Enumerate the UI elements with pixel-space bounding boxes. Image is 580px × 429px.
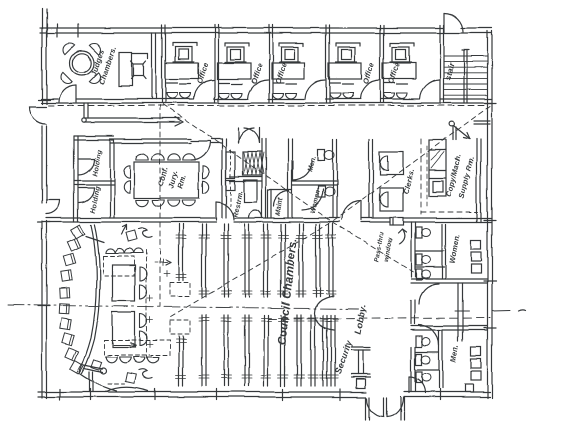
- restroom left wall: [221, 139, 223, 218]
- wall exterior bottom: [38, 391, 366, 393]
- office 3 desk: [272, 63, 305, 79]
- mid restrooms partition: [292, 180, 337, 182]
- small dashed arrow well: [155, 261, 171, 263]
- judges table chairs: [61, 41, 75, 55]
- counsel table 1: [112, 265, 135, 301]
- clerks chair 2: [380, 192, 388, 207]
- podium rear: [126, 373, 137, 384]
- restroom right wall: [261, 139, 263, 218]
- gallery benches lower: [178, 336, 180, 386]
- restroom shelf band: [230, 176, 262, 178]
- office 1 computer: [175, 47, 192, 62]
- dashed centerline vertical: [159, 105, 161, 306]
- judges chambers door: [59, 85, 76, 102]
- men stall dividers: [415, 351, 439, 353]
- women stall dividers: [415, 250, 444, 252]
- holding partition: [74, 180, 114, 182]
- plant corner: [91, 360, 101, 370]
- restroom counter: [226, 152, 235, 178]
- counsel table 1 chairs: [140, 267, 147, 281]
- front chair row upper: [105, 248, 114, 253]
- door to women vestibule: [419, 284, 439, 304]
- clerks left wall: [368, 139, 370, 218]
- conference chairs left: [124, 166, 130, 178]
- office 4 chairs: [330, 93, 341, 98]
- dashed box right upper: [170, 282, 190, 296]
- copy room right wall: [476, 139, 478, 222]
- gallery benches upper: [178, 224, 180, 280]
- entry double doors: [383, 398, 385, 417]
- office 4 desk: [329, 63, 362, 79]
- office 3 shelf: [279, 42, 303, 44]
- aisle gate arc: [315, 296, 335, 330]
- women toilets: [416, 227, 422, 238]
- pass-thru window: [390, 218, 403, 226]
- door conference corridor to chambers: [215, 202, 217, 220]
- wall exterior right: [487, 31, 489, 398]
- security desk: [351, 346, 370, 348]
- front chair row lower: [105, 357, 117, 363]
- holding block left wall: [73, 136, 75, 222]
- door left into chambers: [46, 200, 60, 214]
- fixture men corner: [465, 384, 473, 392]
- pass-thru arrow: [398, 229, 406, 244]
- mid men toilet: [318, 149, 325, 160]
- office 5 door: [420, 80, 440, 99]
- conference chairs bottom: [136, 200, 148, 206]
- holding door 1: [78, 159, 94, 175]
- office partitions: [161, 25, 163, 103]
- judges chambers right wall: [151, 33, 153, 99]
- dashed box right lower: [170, 320, 190, 334]
- arrow in dashed box: [113, 344, 136, 346]
- office 2 computer: [227, 47, 244, 62]
- judge chairs row: [71, 225, 85, 239]
- wall stub below vertex: [452, 127, 454, 140]
- clerks desk 2: [380, 188, 403, 211]
- office 2 shelf: [225, 42, 249, 44]
- restroom toilet arch: [249, 210, 262, 218]
- holding right wall: [109, 140, 111, 218]
- section centerline right dashed: [268, 318, 490, 319]
- mid women toilet: [318, 186, 325, 197]
- stair exterior door: [443, 13, 445, 32]
- dashed diagonal B corner to chambers: [168, 106, 490, 318]
- dashed diagonal A corridor to womens door: [163, 104, 413, 272]
- office 1 desk: [166, 63, 199, 79]
- chambers top wall: [46, 217, 216, 219]
- men toilets: [416, 336, 422, 347]
- diagonal vertex circle: [450, 122, 455, 127]
- office 2 door: [248, 80, 268, 99]
- dashed box lower well: [104, 340, 170, 355]
- office 4 computer: [338, 47, 355, 62]
- restroom fixture lower: [244, 180, 257, 202]
- dashed box upper well: [103, 256, 134, 276]
- office 1 door: [194, 80, 214, 99]
- men room top wall: [411, 325, 487, 327]
- entry vestibule walls: [365, 397, 367, 420]
- rear platform arc: [105, 387, 148, 392]
- dais curve ticks: [86, 236, 104, 242]
- clerks chair 1: [380, 156, 388, 171]
- wall exterior left: [41, 28, 43, 104]
- maint door: [274, 191, 289, 206]
- column ticks bottom wall: [59, 389, 61, 400]
- door exterior left upper: [29, 107, 46, 124]
- office 1 chairs: [167, 93, 178, 98]
- office 4 shelf: [336, 42, 360, 44]
- door to men vestibule: [419, 325, 439, 345]
- section centerline outside right: [492, 310, 510, 313]
- diagonal vertex arrow: [454, 126, 470, 139]
- stair stringer: [463, 50, 465, 103]
- women sinks: [471, 240, 481, 249]
- conference chairs top: [136, 154, 148, 160]
- column ticks top wall: [46, 24, 48, 37]
- office 1 shelf: [173, 42, 197, 44]
- office 2 chairs: [219, 93, 230, 98]
- restroom block west wall: [410, 222, 412, 277]
- vestibule wall right restrooms: [457, 283, 459, 341]
- stair left wall: [439, 25, 441, 103]
- office 5 computer: [392, 47, 409, 62]
- witness arc: [80, 374, 117, 391]
- counsel table 2: [112, 312, 135, 347]
- wall exterior left upper extension: [41, 9, 43, 28]
- mid restrooms right wall: [332, 139, 334, 218]
- door corridor to lobby: [342, 201, 361, 220]
- mid women door: [302, 189, 323, 210]
- conference table: [134, 162, 199, 198]
- copy room dashed walls: [420, 139, 422, 214]
- conference room top wall: [110, 138, 191, 140]
- restroom hatched fixture: [243, 152, 262, 175]
- podium front: [126, 230, 137, 241]
- restroom double door arch: [238, 128, 240, 143]
- wall stub right of vertex: [474, 120, 490, 122]
- office 2 desk: [218, 63, 251, 79]
- men stall wall: [438, 330, 440, 388]
- office 3 chairs: [273, 93, 284, 98]
- column ticks left wall: [38, 99, 50, 101]
- judges round table: [70, 51, 94, 75]
- maint closet walls: [268, 189, 292, 191]
- wall exterior top: [40, 27, 443, 29]
- fixture lobby corner: [356, 379, 365, 388]
- conference chairs right: [203, 166, 209, 178]
- corridor top wall under offices: [156, 98, 193, 100]
- wall stub under judges: [83, 103, 85, 118]
- clerks desk 1: [380, 152, 403, 175]
- column ticks right wall: [484, 102, 496, 104]
- judges desk: [119, 52, 132, 86]
- men sinks: [471, 347, 481, 356]
- office 3 door: [305, 80, 325, 99]
- judges side chair: [134, 64, 144, 76]
- mid men door: [293, 161, 312, 180]
- stair treads: [444, 55, 488, 57]
- plus marks well: [147, 297, 153, 299]
- corridor dashed line: [48, 105, 486, 107]
- women room bottom wall: [411, 278, 487, 280]
- women stall wall: [441, 224, 443, 279]
- office 5 shelf: [390, 42, 414, 44]
- dais closure wall: [88, 372, 90, 392]
- copier machine: [429, 140, 446, 196]
- office 5 chairs: [384, 93, 395, 98]
- counsel table 2 chairs: [140, 314, 147, 328]
- door lobby bottom men: [408, 377, 410, 393]
- section centerline left: [8, 305, 358, 309]
- office 5 desk: [383, 63, 416, 79]
- holding door 2: [79, 188, 94, 203]
- office 4 door: [360, 80, 380, 99]
- office 3 computer: [281, 47, 298, 62]
- mid restrooms left wall: [287, 139, 289, 218]
- dashed vertical well right: [146, 250, 148, 358]
- corridor wall segment with arrow: [84, 117, 180, 119]
- holding block top wall: [74, 135, 114, 137]
- judges chambers bottom wall: [41, 98, 58, 100]
- dais curved bench: [79, 225, 96, 372]
- conference door: [191, 142, 210, 160]
- vestibule wall centerline tick: [455, 310, 469, 312]
